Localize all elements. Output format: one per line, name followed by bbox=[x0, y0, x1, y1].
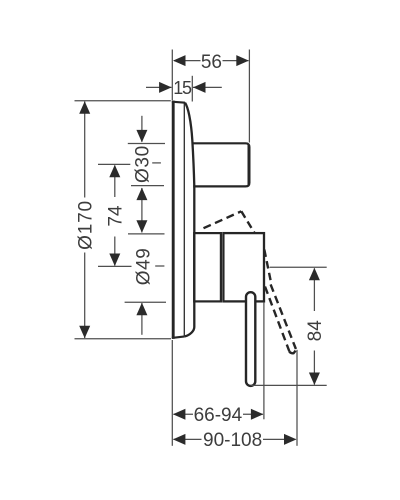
svg-text:Ø170: Ø170 bbox=[76, 200, 97, 250]
extension line grip end to 66-94 bbox=[263, 303, 265, 420]
dimension line 56 bbox=[174, 60, 201, 62]
escutcheon plate top edge bbox=[172, 102, 185, 103]
svg-text:74: 74 bbox=[105, 205, 126, 227]
arrow 74 top bbox=[109, 165, 120, 178]
extension line top of Ø170 bbox=[75, 100, 171, 102]
svg-text:66-94: 66-94 bbox=[194, 405, 243, 426]
dimension line 15 left tail bbox=[146, 86, 172, 88]
extension line dashed lever tip to 90-108 bbox=[296, 350, 298, 446]
dimension line 74 bbox=[114, 166, 116, 198]
dashed alternate handle position bbox=[204, 211, 296, 353]
svg-text:Ø49: Ø49 bbox=[134, 248, 155, 286]
svg-text:15: 15 bbox=[173, 78, 192, 98]
arrow Ø49 top (pointing down) bbox=[136, 220, 147, 233]
handle grip body bbox=[223, 233, 264, 301]
extension line right of 15 (plate back) bbox=[191, 76, 193, 102]
svg-text:Ø30: Ø30 bbox=[132, 145, 153, 183]
arrow 15 right (outside) bbox=[193, 82, 206, 93]
extension line bottom of 84 (lever tip) bbox=[251, 384, 327, 386]
svg-text:56: 56 bbox=[201, 52, 222, 73]
Ø30 upper arrow line bbox=[141, 116, 143, 142]
dimension line 15 right tail bbox=[193, 86, 222, 88]
arrow Ø170 top bbox=[79, 101, 90, 114]
arrowheads bbox=[79, 55, 320, 445]
extension line handle top (Ø49) bbox=[128, 233, 165, 235]
dimension line 66-94 bbox=[174, 413, 194, 415]
dimension texts bbox=[76, 52, 326, 451]
arrow 90-108 right bbox=[284, 434, 297, 445]
arrow Ø49 bottom (pointing up) bbox=[136, 303, 147, 316]
escutcheon plate bottom edge bbox=[172, 336, 185, 338]
extension line stem top (Ø30) bbox=[128, 143, 165, 145]
arrow 66-94 left bbox=[173, 409, 186, 420]
extension line right of 56 (stem end) bbox=[248, 50, 250, 143]
svg-text:90-108: 90-108 bbox=[203, 430, 262, 451]
arrow 74 bottom bbox=[109, 254, 120, 267]
Ø49 lower arrow line bbox=[141, 303, 143, 335]
dashed tilted lever right edge bbox=[271, 284, 296, 349]
arrow 84 top bbox=[309, 268, 320, 281]
dimension line Ø170 bbox=[84, 102, 86, 198]
arrow 56 right bbox=[236, 55, 249, 66]
dashed tilted grip end face bbox=[241, 211, 254, 233]
arrow 66-94 right bbox=[251, 409, 264, 420]
arrow 90-108 left bbox=[173, 434, 186, 445]
arrow Ø30 bottom (pointing up) bbox=[136, 188, 147, 201]
thin dimension and extension lines bbox=[75, 50, 327, 446]
lever pin (solid position) bbox=[246, 292, 255, 386]
extension line left of 56/15 (plate front) bbox=[171, 50, 173, 101]
arrow 84 bottom bbox=[309, 373, 320, 386]
extension line top of 84 (handle axis) bbox=[270, 266, 327, 268]
extension line stem bottom (Ø30) bbox=[131, 185, 164, 187]
escutcheon plate front face bbox=[172, 101, 175, 339]
dimension line 90-108 bbox=[174, 438, 202, 440]
arrow Ø30 top (pointing down) bbox=[136, 130, 147, 143]
extension line bottom of Ø170 bbox=[75, 338, 172, 340]
valve stem end cap edge bbox=[247, 145, 249, 186]
dashed tilted lever tip arc bbox=[289, 351, 295, 354]
Ø30/Ø49 shared arrow line bbox=[141, 188, 143, 232]
centerline dash stem axis bbox=[152, 162, 161, 164]
arrow 15 left (outside) bbox=[159, 82, 172, 93]
extension tick handle axis (74 bottom) bbox=[98, 265, 132, 267]
escutcheon plate back profile bbox=[185, 103, 195, 337]
arrow Ø170 bottom bbox=[79, 326, 90, 339]
extension tick stem axis (74 top) bbox=[98, 163, 130, 165]
dashed tilted grip top edge bbox=[204, 211, 242, 228]
dimension line 84 bbox=[313, 268, 315, 311]
arrow 56 left bbox=[173, 55, 186, 66]
valve stem cartridge body bbox=[193, 143, 249, 186]
svg-text:84: 84 bbox=[305, 320, 326, 342]
centerline dash handle axis bbox=[155, 265, 164, 267]
dashed tilted lever upper segment bbox=[264, 250, 271, 282]
escutcheon plate rim silhouette line bbox=[183, 103, 185, 337]
extension line handle bottom (Ø49) bbox=[125, 301, 166, 303]
extension line plate front to bottom dims bbox=[171, 340, 173, 446]
dashed tilted lever left edge bbox=[265, 287, 289, 352]
handle base sleeve bbox=[194, 233, 221, 301]
